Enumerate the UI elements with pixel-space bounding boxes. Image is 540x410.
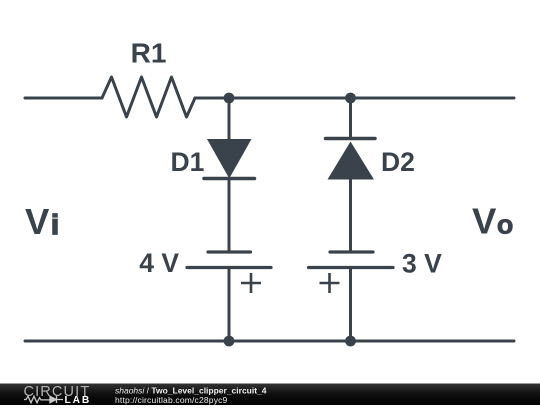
diode D2 cathode bar <box>326 137 376 141</box>
node junction bottom-right <box>345 336 356 347</box>
CircuitLab logo diode <box>50 396 63 403</box>
svg-text:LAB: LAB <box>65 395 92 405</box>
svg-text:D1: D1 <box>171 147 205 177</box>
svg-text:D2: D2 <box>381 147 415 177</box>
node junction top-right <box>345 93 356 104</box>
wire from D2 to battery V2 <box>349 180 352 253</box>
wire from battery V2 to bottom node <box>349 268 352 342</box>
node junction top-left <box>224 93 235 104</box>
battery V1 negative plate (short) <box>208 250 251 253</box>
diode D1 cathode bar <box>204 177 255 181</box>
battery V2 negative plate (short) <box>330 250 373 253</box>
svg-text:Vi: Vi <box>25 201 59 242</box>
wire from battery V1 to bottom node <box>228 268 231 342</box>
wire from top node to D2 <box>349 98 352 139</box>
diode D1 triangle <box>207 139 252 179</box>
wire top horizontal right segment <box>195 97 514 100</box>
diode D2 triangle <box>328 142 375 180</box>
wire bottom horizontal <box>25 340 514 343</box>
svg-text:4 V: 4 V <box>139 248 179 278</box>
battery V2 positive plate (long) <box>309 266 394 269</box>
svg-text:shaohsi / Two_Level_clipper_ci: shaohsi / Two_Level_clipper_circuit_4 <box>115 386 267 396</box>
resistor R1 <box>102 77 195 117</box>
wire from D1 to battery V1 <box>228 179 231 253</box>
wire top horizontal left segment <box>25 97 102 100</box>
svg-text:Vo: Vo <box>472 201 513 242</box>
battery V1 plus sign <box>241 273 261 293</box>
svg-text:3 V: 3 V <box>402 249 442 279</box>
CircuitLab logo resistor zigzag <box>24 396 50 402</box>
node junction bottom-left <box>224 336 235 347</box>
battery V2 plus sign <box>320 273 340 293</box>
svg-text:R1: R1 <box>131 38 167 69</box>
wire from top node to D1 <box>228 98 231 139</box>
battery V1 positive plate (long) <box>187 266 271 269</box>
svg-text:http://circuitlab.com/c28pyc9: http://circuitlab.com/c28pyc9 <box>115 395 228 405</box>
